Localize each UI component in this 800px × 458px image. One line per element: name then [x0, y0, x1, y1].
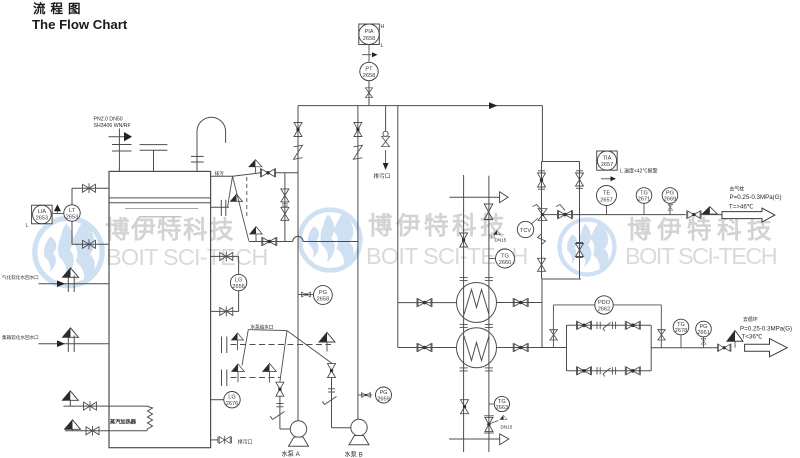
- riser2 DN15 drain valve: [484, 415, 494, 417]
- makeup diagonal to flag: [242, 330, 248, 366]
- LG lower tap line: [211, 310, 239, 312]
- svg-text:P=0.25-0.3MPa(G): P=0.25-0.3MPa(G): [740, 326, 792, 333]
- steam header: [298, 105, 542, 107]
- dosing flag D: [263, 363, 277, 371]
- dosing upper flange pair: [221, 337, 223, 354]
- svg-text:LT: LT: [69, 208, 76, 214]
- svg-text:2660: 2660: [499, 260, 511, 266]
- LG lower tap valve: [220, 306, 233, 316]
- svg-text:2653: 2653: [36, 216, 48, 222]
- PT root valve: [365, 88, 372, 98]
- riser B (to pump B): [357, 106, 359, 420]
- crossing line with arrow: [450, 196, 500, 198]
- TCV spring: [538, 234, 546, 248]
- LG 2676 level gauge: [211, 399, 224, 401]
- drain relief valve: [383, 131, 388, 136]
- blowdown dashes: [282, 203, 288, 205]
- HX tube riser 1: [463, 175, 465, 452]
- svg-text:2661: 2661: [697, 330, 709, 336]
- header drain branch: [385, 106, 387, 131]
- branch1 trap flanges: [597, 322, 616, 331]
- svg-text:博伊特科技: 博伊特科技: [627, 216, 777, 244]
- PT 2658 transmitter: [360, 62, 378, 80]
- PIA-PT signal stem: [368, 45, 370, 63]
- pump B suction train globe valve: [328, 364, 336, 378]
- svg-text:2658: 2658: [363, 36, 375, 42]
- TG 2663 stub: [489, 403, 495, 405]
- blowdown branch pipe: [284, 173, 286, 242]
- svg-text:T<36℃: T<36℃: [742, 333, 763, 340]
- TG 2663 gauge: [494, 396, 509, 411]
- N1 flange pair: [112, 144, 132, 146]
- HX1 shell outlet line: [497, 302, 543, 304]
- dosing dashed line upper: [231, 344, 332, 346]
- svg-text:排污口: 排污口: [238, 439, 253, 446]
- dosing flag A: [232, 333, 244, 340]
- dosing lower flange pair: [221, 370, 223, 387]
- svg-text:2676: 2676: [226, 401, 238, 407]
- HX1 outlet ball valve: [513, 298, 528, 307]
- bypass lower globe valve: [576, 242, 583, 244]
- svg-text:2678: 2678: [675, 328, 687, 334]
- water level line: [249, 241, 293, 243]
- pump B train check valve: [325, 397, 337, 405]
- svg-text:LG: LG: [235, 278, 242, 284]
- branch1 ball valve right: [625, 321, 640, 330]
- inlet 2 line with arrow: [39, 343, 109, 345]
- LG gauge column lower: [238, 291, 240, 312]
- heater inlet 4 flag stem: [72, 429, 74, 431]
- svg-text:PDO: PDO: [598, 300, 611, 306]
- trap outlet merge pipe: [650, 325, 652, 371]
- svg-text:2669: 2669: [664, 196, 676, 202]
- svg-text:2663: 2663: [496, 405, 508, 411]
- HX1 shell inlet line: [398, 302, 457, 304]
- watermark 3 logo: [560, 220, 615, 275]
- PDO 2662 gauge: [595, 296, 613, 314]
- svg-text:去循环: 去循环: [743, 316, 758, 323]
- HX2 shell outlet line: [497, 347, 567, 349]
- svg-text:T=>46℃: T=>46℃: [729, 203, 754, 210]
- drum water band line lower: [109, 202, 211, 204]
- PG 2661 gauge: [696, 321, 712, 337]
- condensate link to trap header: [541, 279, 543, 348]
- svg-text:DN15: DN15: [501, 425, 513, 430]
- pump B inlet elbow: [332, 427, 352, 429]
- bottom line with arrow: [449, 438, 500, 440]
- svg-text:LIA: LIA: [38, 209, 47, 215]
- pump A suction train globe valve: [276, 382, 284, 396]
- svg-text:TE: TE: [603, 191, 610, 197]
- HX feed riser: [397, 106, 399, 348]
- TIA-TE signal arrow: [601, 178, 611, 180]
- gauge diagonal long: [233, 176, 249, 241]
- LT lower tap valve: [83, 239, 96, 249]
- riser2 DN15 tap: [489, 235, 495, 240]
- PG 2658 gauge: [314, 286, 333, 305]
- PG 2658 root valve: [298, 294, 313, 296]
- svg-text:PG: PG: [319, 290, 327, 296]
- LT standpipe upper: [71, 188, 73, 205]
- trap branch 1 pipe: [567, 324, 652, 326]
- watermark 2 logo: [300, 210, 361, 271]
- riser A break symbol: [294, 145, 303, 159]
- drum water band line upper: [109, 197, 211, 199]
- TCV column lower globe valve: [538, 258, 546, 271]
- drum level mark 1: [125, 208, 198, 210]
- svg-text:L 温度<42℃报警: L 温度<42℃报警: [620, 168, 657, 175]
- heater inlet 4 flag: [65, 420, 81, 430]
- drum level mark 2: [139, 216, 181, 218]
- svg-text:TG: TG: [501, 254, 509, 260]
- branch2 trap internals: [597, 367, 616, 376]
- top link line: [542, 161, 580, 163]
- steam outlet ball valve: [261, 168, 276, 177]
- gauge diagonal short: [228, 176, 233, 207]
- svg-text:气化软化水回水口: 气化软化水回水口: [2, 274, 39, 281]
- svg-text:2653: 2653: [66, 215, 78, 221]
- PIA 2658 alarm square: [359, 24, 380, 45]
- riser1 globe valve upper: [460, 233, 468, 247]
- svg-text:L: L: [381, 43, 384, 49]
- TG 2660 gauge: [496, 249, 515, 268]
- makeup leader apex: [248, 330, 287, 331]
- inlet 1 vent flag: [63, 268, 79, 278]
- inlet 1 line with arrow: [39, 283, 109, 285]
- makeup diagonal to pump B train: [287, 331, 332, 364]
- bottom link line: [542, 278, 581, 280]
- trap branch 2 pipe: [567, 370, 652, 372]
- svg-text:2657: 2657: [600, 198, 612, 204]
- TCV leader line: [532, 218, 539, 224]
- svg-text:水泵 A: 水泵 A: [282, 450, 301, 458]
- svg-text:TIA: TIA: [603, 156, 612, 162]
- inlet 2 vent flag: [63, 328, 79, 338]
- svg-text:H: H: [381, 24, 385, 30]
- blowdown globe valve upper: [281, 189, 289, 202]
- HX2 outlet ball valve: [513, 343, 528, 352]
- condensate outlet arrow: [745, 339, 788, 357]
- drum drain stub: [211, 439, 218, 441]
- LT standpipe lower: [71, 221, 73, 244]
- TCV control valve: [538, 209, 547, 221]
- top nozzle N2 capped: [140, 144, 168, 146]
- pump A: [290, 421, 306, 437]
- TCV instrument bubble: [517, 221, 533, 237]
- LT lower tap line: [72, 243, 109, 245]
- svg-text:PIA: PIA: [364, 29, 373, 35]
- svg-text:2658: 2658: [317, 296, 329, 302]
- svg-text:TCV: TCV: [520, 228, 531, 234]
- N1 feed arrow: [109, 136, 126, 138]
- svg-text:DN15: DN15: [495, 238, 507, 243]
- watermark 1 logo: [35, 218, 102, 285]
- svg-text:2671: 2671: [638, 196, 650, 202]
- svg-text:排污口: 排污口: [374, 172, 391, 180]
- svg-text:PN2.0 DN50: PN2.0 DN50: [94, 117, 123, 123]
- inlet 1 flange pair: [68, 276, 74, 293]
- svg-text:The Flow Chart: The Flow Chart: [32, 17, 128, 32]
- outlet flag: [727, 331, 743, 342]
- TG 2671 gauge: [636, 188, 652, 204]
- riser2 nozzle ticks: [485, 278, 493, 371]
- PT root stem: [368, 81, 370, 106]
- TCV column upper globe valve: [538, 170, 545, 172]
- steam supply line: [543, 214, 686, 216]
- svg-text:BOIT SCI-TECH: BOIT SCI-TECH: [625, 243, 777, 269]
- pump A inlet elbow: [280, 428, 291, 430]
- dosing dashed line lower: [231, 377, 280, 379]
- PG 2669 gauge: [662, 188, 678, 204]
- riser B globe valve: [354, 123, 362, 137]
- LT upper tap valve: [83, 183, 96, 193]
- svg-text:P=0.25-0.3MPa(G): P=0.25-0.3MPa(G): [730, 194, 782, 201]
- bypass column pipe: [579, 162, 581, 280]
- HX tube riser 2: [488, 176, 490, 452]
- header flow arrow: [489, 102, 498, 109]
- condensate outlet ball valve: [717, 344, 731, 352]
- HX2 shell inlet line: [398, 347, 457, 349]
- PG 2659 gauge: [376, 387, 392, 403]
- PDO 2662 line left: [553, 304, 595, 306]
- heater inlet 3 gate valve: [84, 401, 97, 411]
- svg-text:蒸汽加热器: 蒸汽加热器: [109, 418, 137, 426]
- outlet stub: [701, 214, 722, 216]
- pump B: [351, 419, 367, 435]
- signal up arrow: [54, 204, 61, 211]
- branch1 ball valve left: [577, 321, 592, 330]
- pump A train check valve: [273, 412, 285, 420]
- header right downleg: [541, 106, 543, 162]
- svg-text:去气枕: 去气枕: [730, 186, 745, 193]
- svg-text:PG: PG: [379, 390, 387, 396]
- svg-text:SH3406 WN/RF: SH3406 WN/RF: [94, 123, 131, 129]
- svg-text:L: L: [26, 223, 29, 229]
- riser B break symbol: [353, 145, 362, 159]
- TE 2657 element: [597, 186, 617, 206]
- LIA-LT signal link: [52, 213, 64, 215]
- top nozzle N1 pipe: [118, 129, 120, 172]
- water level line right: [303, 241, 358, 243]
- svg-text:2659: 2659: [377, 396, 389, 402]
- gauge dashed line: [246, 177, 248, 219]
- svg-text:博伊特科技: 博伊特科技: [368, 212, 508, 240]
- TE stem: [606, 206, 608, 215]
- HX1 shell circle: [457, 283, 497, 323]
- PDO left tap pipe: [552, 305, 554, 347]
- heater inlet 4 gate valve: [86, 426, 99, 436]
- svg-text:BOIT SCI-TECH: BOIT SCI-TECH: [106, 244, 268, 270]
- PG 2659 root valve: [358, 394, 372, 396]
- HX2 inlet ball valve: [417, 343, 432, 352]
- heater inlet 3 flag: [62, 391, 78, 401]
- HX2 shell circle: [457, 328, 497, 368]
- svg-text:2662: 2662: [598, 306, 610, 312]
- TCV column pipe: [541, 162, 543, 280]
- pump A train flange: [276, 403, 283, 405]
- condensate outlet line: [651, 347, 718, 349]
- gooseneck flange pair: [191, 155, 204, 157]
- PDO right tap pipe: [660, 305, 662, 348]
- svg-text:PT: PT: [365, 67, 373, 73]
- drum drain valve: [217, 437, 219, 444]
- LIA 2653 alarm square: [32, 205, 52, 224]
- LG gauge column upper: [238, 256, 240, 274]
- svg-text:流程图: 流程图: [33, 1, 86, 16]
- svg-text:集箱软化水回水口: 集箱软化水回水口: [2, 334, 39, 341]
- riser1 nozzle ticks: [460, 278, 468, 371]
- steam heater inlet pipe lower: [65, 430, 147, 432]
- pipe hop over riser A: [293, 236, 303, 241]
- level line ball valve: [262, 237, 277, 246]
- dosing flag B: [319, 333, 335, 343]
- LT upper tap line: [72, 187, 109, 189]
- riser2 globe valve: [484, 204, 492, 220]
- riser A globe valve: [294, 123, 302, 137]
- steam drum vessel: [109, 171, 211, 447]
- LG upper tap line: [211, 255, 239, 257]
- trap inlet split pipe: [566, 325, 568, 371]
- gauge flag lower: [250, 227, 262, 234]
- inlet 2 flange pair: [68, 336, 74, 353]
- TIA 2657 alarm square: [597, 151, 618, 170]
- riser A (to pump A): [297, 106, 299, 421]
- TG 2678 gauge: [673, 319, 689, 335]
- drain down arrow: [385, 150, 387, 164]
- blowdown globe valve lower: [281, 207, 289, 220]
- steam outlet vent flag: [249, 160, 262, 167]
- svg-text:博伊特科技: 博伊特科技: [105, 216, 235, 244]
- riser1 globe valve lower: [461, 400, 469, 414]
- LG upper tap valve: [220, 251, 233, 261]
- pump B train flange: [328, 388, 335, 390]
- gooseneck vent pipe: [197, 117, 226, 171]
- LG 2656 level gauge: [230, 274, 246, 290]
- makeup diagonal to pump A train: [280, 331, 287, 382]
- signal arrow: [362, 54, 372, 56]
- svg-text:2658: 2658: [363, 73, 375, 79]
- branch2 ball valve right: [625, 366, 640, 375]
- dosing flag C: [232, 364, 245, 372]
- steam heater coil: [147, 406, 153, 431]
- steam line ball valve with lever: [558, 210, 573, 219]
- bypass upper globe valve: [576, 170, 583, 172]
- branch2 ball valve left: [577, 366, 592, 375]
- gauge flag upper: [231, 194, 243, 201]
- svg-text:LG: LG: [228, 395, 235, 401]
- svg-text:水泵 B: 水泵 B: [345, 451, 363, 458]
- LT 2653 transmitter: [64, 205, 80, 221]
- steam outlet ball valve: [687, 210, 701, 219]
- PDO 2662 line right: [613, 304, 661, 306]
- HX1 inlet ball valve: [417, 298, 432, 307]
- svg-text:2656: 2656: [232, 284, 244, 290]
- outlet vent flag: [702, 207, 717, 214]
- steam outlet arrow: [722, 208, 775, 222]
- TG 2660 stub: [489, 258, 496, 260]
- drum steam outlet line: [211, 173, 261, 177]
- gauge upper tap with flanges: [211, 206, 229, 208]
- svg-text:2657: 2657: [601, 162, 613, 168]
- steam heater inlet pipe upper: [63, 405, 147, 407]
- heater inlet 3 flag stem: [69, 400, 71, 406]
